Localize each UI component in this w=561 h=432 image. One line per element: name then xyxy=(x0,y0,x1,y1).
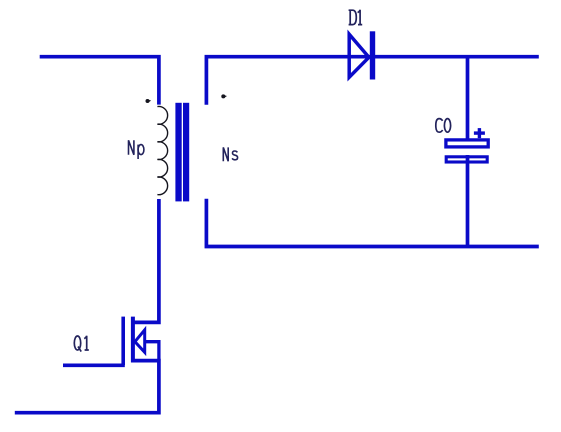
wire: transformer primary bottom to Q1 drain xyxy=(131,199,159,322)
wire: secondary bottom to output bottom rail xyxy=(206,199,538,247)
node: primary polarity dot xyxy=(146,99,152,103)
capacitor C0 plus sign xyxy=(474,128,485,138)
diode D1 triangle xyxy=(349,34,369,77)
label D1 xyxy=(349,10,363,25)
label Ns xyxy=(223,147,237,161)
transistor Q1 substrate arrow xyxy=(135,330,145,352)
wire: secondary top to output top rail xyxy=(206,57,538,105)
node: secondary polarity dot xyxy=(221,94,227,98)
wire: Q1 bulk connection xyxy=(145,342,159,361)
wire: Q1 source to bottom-left rail xyxy=(15,361,159,413)
wire: gate lead to Q1 xyxy=(63,363,125,367)
transistor Q1 channel bar xyxy=(131,317,135,363)
transformer core bar left xyxy=(175,103,181,202)
wire: capacitor branch from top rail xyxy=(466,57,470,140)
label C0 xyxy=(436,119,451,133)
diode D1 cathode bar xyxy=(370,31,375,79)
capacitor C0 top plate xyxy=(446,140,488,147)
transformer core bar right xyxy=(183,103,189,202)
capacitor C0 bottom plate xyxy=(446,157,487,162)
wire: primary input top-left to transformer primary top xyxy=(40,57,159,105)
label Np xyxy=(129,140,144,159)
wire: capacitor bottom lead to bottom rail xyxy=(466,155,470,247)
inductor Np primary winding arcs xyxy=(157,107,167,195)
transistor Q1 gate bar xyxy=(121,317,125,366)
label Q1 xyxy=(74,336,89,352)
